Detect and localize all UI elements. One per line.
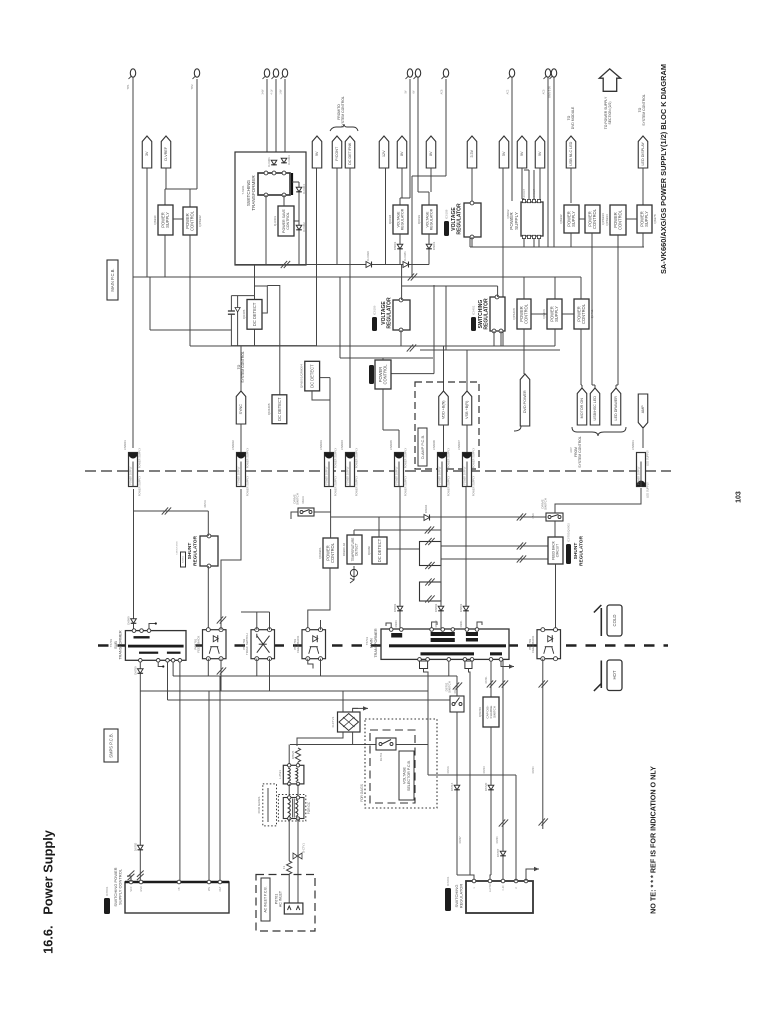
svg-text:Q6978: Q6978 <box>653 214 657 224</box>
label FOR GA/GS rotated <box>360 784 364 802</box>
cable marks y517 <box>517 513 526 520</box>
wire D6803 riser <box>399 487 401 628</box>
svg-text:R6525: R6525 <box>291 750 295 759</box>
wire Q6990 to busB <box>164 235 166 277</box>
arrow cold <box>594 605 601 636</box>
diode D6803 <box>393 603 403 612</box>
svg-text:F-IN: F-IN <box>502 885 505 890</box>
svg-text:3.3V: 3.3V <box>470 149 474 157</box>
cable marks rect1 bottom <box>425 562 434 569</box>
label VOLTAGE REGULATOR row2 bold <box>381 297 393 329</box>
svg-text:IC6501: IC6501 <box>105 886 109 896</box>
wire coil a to tr <box>288 784 290 798</box>
svg-text:REGULATOR: REGULATOR <box>456 203 462 235</box>
svg-text:FOR GA/GS: FOR GA/GS <box>360 784 364 802</box>
terminal at x=548 <box>544 69 551 79</box>
svg-text:QP6408: QP6408 <box>512 308 516 320</box>
cable marks mt491 <box>487 680 496 687</box>
wire vreg2 down <box>428 234 430 265</box>
terminal at x=446 <box>442 69 449 79</box>
svg-text:FEED BACK: FEED BACK <box>531 636 535 653</box>
svg-text:SWITCH: SWITCH <box>448 681 452 693</box>
svg-text:FOR GC: FOR GC <box>307 801 311 814</box>
wire jog y189 <box>165 188 197 190</box>
label SWITCHING REGULATOR bottom <box>454 884 463 909</box>
svg-text:FEED BACK: FEED BACK <box>296 636 300 653</box>
cable marks rect2 bottom <box>425 595 434 602</box>
cable marks bus511 <box>162 507 171 514</box>
svg-text:SMPS P.C.B.: SMPS P.C.B. <box>108 733 113 758</box>
svg-text:REGULATOR: REGULATOR <box>459 884 464 909</box>
wire terminal3 down <box>266 79 268 174</box>
bus G2 y=700 <box>168 699 456 701</box>
svg-text:4-1V: 4-1V <box>270 89 273 94</box>
terminal at x=418 <box>414 69 421 79</box>
svg-text:SA-VK660/AXG/GS POWER SUPPLY(1: SA-VK660/AXG/GS POWER SUPPLY(1/2) BLOC K… <box>659 64 668 274</box>
photocoupler PC6701 FEED BACK <box>293 628 326 661</box>
svg-text:D-6490: D-6490 <box>366 251 370 261</box>
wire sub pin to busF <box>172 662 174 676</box>
brace top system control <box>330 124 358 131</box>
svg-text:TP1: TP1 <box>126 84 130 90</box>
svg-text:DC DETECT: DC DETECT <box>377 538 382 562</box>
wire powersave right link <box>294 220 299 222</box>
wire 3.3V-2 down <box>471 168 473 202</box>
diode D6799 <box>133 666 143 675</box>
svg-text:QP6994: QP6994 <box>605 214 609 226</box>
svg-text:103: 103 <box>735 491 742 503</box>
svg-text:FOR GA/GS: FOR GA/GS <box>257 797 261 814</box>
winding primary 3 main transformer <box>466 632 478 642</box>
label AC INLET P.C.B. <box>261 878 270 921</box>
wire link row2 cd <box>562 313 574 315</box>
svg-text:POWER SUPPLY: POWER SUPPLY <box>446 447 450 468</box>
wire 9V-2 down <box>521 168 523 199</box>
cable marks rect1 top <box>425 538 434 545</box>
label TO DVD MODULE <box>567 106 575 129</box>
wire connector AMP to switch2 <box>555 488 641 513</box>
svg-text:AC INLET: AC INLET <box>279 890 283 907</box>
net label 5V at x=504 <box>499 136 509 168</box>
terminal at x=276 <box>272 69 279 79</box>
svg-text:1-8V: 1-8V <box>279 89 282 94</box>
wire box top stub <box>254 296 256 300</box>
svg-text:POWER SUPPLY: POWER SUPPLY <box>327 466 329 485</box>
wire right branch horiz <box>292 181 299 183</box>
ref tag IC6801 shunt outlined <box>177 540 186 567</box>
svg-text:TRANSFORMER: TRANSFORMER <box>118 630 122 660</box>
block DC DETECT QR6001 <box>300 361 320 391</box>
label VOLTAGE REGULATOR row1 bold <box>451 203 463 235</box>
cable marks smps left <box>128 871 135 881</box>
svg-text:AC8: AC8 <box>440 89 443 94</box>
pins main transformer bottom <box>418 658 503 662</box>
thermistor TH6901 <box>350 566 358 583</box>
block POWER SUPPLY right2 <box>637 205 657 233</box>
svg-text:5 IN/OUT: 5 IN/OUT <box>533 188 536 199</box>
net label VDD +B(N) <box>439 391 449 425</box>
svg-text:D6802: D6802 <box>435 620 438 628</box>
wire PC6702 up L <box>256 612 258 630</box>
wire filter feed a <box>288 745 290 766</box>
connector CN6002 <box>231 440 246 487</box>
sheet title GA-VX600/AXG/GS POWER SUPPLY(1/2) BLOCK DIAGRAM <box>659 64 668 274</box>
pin number texts switching regulator <box>473 884 518 892</box>
svg-text:POWER SUPPLY: POWER SUPPLY <box>465 466 467 485</box>
svg-text:Q6093: Q6093 <box>388 215 392 225</box>
wire sub pin down D6799 <box>139 662 141 882</box>
wire bridge top feed <box>342 691 344 712</box>
svg-text:D6707: D6707 <box>459 836 462 844</box>
svg-text:8V: 8V <box>400 151 404 156</box>
wire dcdet mid top <box>378 517 380 537</box>
svg-text:POWER SUPPLY: POWER SUPPLY <box>245 475 249 496</box>
svg-text:8V: 8V <box>429 151 433 156</box>
svg-text:CN6601: CN6601 <box>631 440 635 450</box>
wire T6301 left pin down <box>265 195 267 265</box>
svg-text:D6724: D6724 <box>532 766 535 774</box>
wire t8 down <box>411 176 413 265</box>
wire 8V-2 through <box>430 168 432 192</box>
bus A y=264.5 <box>235 264 412 266</box>
wire vregIC down to bus247 <box>471 237 473 247</box>
bus F y=676 <box>173 675 457 677</box>
hook wire winding3 <box>477 622 482 628</box>
wire 9V-3 down <box>539 168 541 202</box>
wire tr down a <box>288 819 290 862</box>
enclosure AC INLET P.C.B. dashed <box>256 875 315 932</box>
svg-text:CN6005: CN6005 <box>389 440 393 450</box>
pins T6301 <box>264 171 286 197</box>
wire 3V down <box>146 168 148 277</box>
wire D6802 riser <box>440 487 442 628</box>
wire PC6791 down L <box>207 659 209 676</box>
diode D6091 <box>426 241 436 250</box>
diode D-6303 <box>281 155 291 165</box>
svg-text:SUPPLY: SUPPLY <box>554 306 559 322</box>
svg-text:REGULATOR: REGULATOR <box>386 297 392 329</box>
svg-text:3V: 3V <box>145 151 149 156</box>
svg-text:POWER SUPPLY: POWER SUPPLY <box>440 466 442 485</box>
wire jog motor-on <box>581 384 582 386</box>
svg-text:MOTOR ON: MOTOR ON <box>580 398 584 419</box>
wire D6801 riser <box>465 487 467 628</box>
block POWER CONTROL lower <box>318 538 338 568</box>
ref tag IC6601 <box>445 876 451 911</box>
svg-text:CONTROL: CONTROL <box>383 364 388 385</box>
wire jog t8 <box>412 175 446 177</box>
winding secondary main transformer <box>421 652 475 655</box>
wire terminal6 down <box>409 79 411 198</box>
wire T6301 to power save <box>283 195 285 206</box>
block POWER CONTROL row2a <box>512 299 531 329</box>
wire 9V down <box>316 168 318 346</box>
connector CN6001 <box>123 440 138 487</box>
svg-text:Q6411: Q6411 <box>590 309 594 318</box>
wire y530 line <box>354 529 441 531</box>
svg-text:Q6002: Q6002 <box>506 209 510 218</box>
block rect filter 2 <box>420 582 442 601</box>
wire Q6002 pin b down <box>533 239 535 247</box>
wire terminal2 down <box>196 79 198 189</box>
svg-text:SUPPLY: SUPPLY <box>165 212 170 228</box>
wire riser to CN6003 <box>329 378 331 452</box>
svg-text:SYSTEM CONTROL: SYSTEM CONTROL <box>341 96 345 128</box>
svg-text:QR6001/QR6004: QR6001/QR6004 <box>300 364 304 388</box>
svg-text:CONTROL: CONTROL <box>330 542 335 563</box>
wire terminal1 down <box>132 77 134 448</box>
net label AMP <box>638 394 648 428</box>
wire bridge out arrow <box>353 708 358 712</box>
cable marks y559 <box>517 555 526 562</box>
svg-text:POWER SUPPLY: POWER SUPPLY <box>333 475 337 496</box>
svg-text:SHUNT: SHUNT <box>187 543 193 560</box>
winding tap step right <box>465 661 472 669</box>
svg-text:POWER SUPPLY: POWER SUPPLY <box>137 475 141 496</box>
svg-text:CONTROL: CONTROL <box>618 209 623 230</box>
net label 3V at x=147 <box>142 136 152 168</box>
svg-text:POWER SUPPLY: POWER SUPPLY <box>403 447 407 468</box>
wire bottom bracket dc detect <box>231 345 316 347</box>
svg-text:Q-6301: Q-6301 <box>273 216 277 227</box>
label TO SYSTEM CONTROL mid <box>237 351 245 383</box>
arrow bridge out <box>353 706 368 710</box>
svg-text:POWER SUPPLY: POWER SUPPLY <box>245 447 249 468</box>
cable marks on bus A <box>281 261 290 268</box>
block POWER SUPPLY row2b <box>542 299 562 329</box>
svg-text:3-6V: 3-6V <box>261 89 264 94</box>
block POWER SUPPLY right1 <box>559 205 579 233</box>
bus H y=744.5 relay line <box>290 744 428 746</box>
net label 9V at x=522 <box>517 136 527 168</box>
wire Q6002 jog a <box>524 169 529 171</box>
terminal at x=512 <box>508 69 515 79</box>
block switching regulator body row2 <box>490 295 505 333</box>
wire tr down b <box>297 819 299 904</box>
net label 12V at x=384 <box>379 136 389 168</box>
relay RL761 <box>376 738 396 761</box>
wire capdis down <box>490 727 492 875</box>
svg-text:POWER SUPPLY: POWER SUPPLY <box>354 475 358 496</box>
svg-text:D-6302: D-6302 <box>302 222 306 232</box>
svg-text:POWER SUPPLY: POWER SUPPLY <box>639 466 641 485</box>
wire conn399 jog <box>383 429 399 431</box>
winding primary 1 main transformer <box>391 633 402 638</box>
wire DC DET/FNK down to connector <box>349 168 351 448</box>
svg-text:D6720: D6720 <box>484 782 488 791</box>
svg-text:D6T01: D6T01 <box>485 676 488 684</box>
block outline SWITCHING TRANSFORMER group <box>235 152 306 265</box>
wire mt tapR down <box>469 669 471 876</box>
wire VDD to connector <box>443 425 445 452</box>
wire shunt bottom <box>207 566 209 630</box>
bus F247 y=247 <box>470 246 644 248</box>
pin texts q6002 <box>523 188 536 199</box>
hook wire sub top <box>149 622 157 628</box>
core bar main transformer <box>389 644 506 647</box>
svg-text:D6801: D6801 <box>460 620 463 628</box>
wire P/CONT down <box>336 168 338 265</box>
wire 12V down to busA <box>385 168 387 265</box>
svg-text:D6802: D6802 <box>434 603 438 612</box>
svg-text:D-AMP P.C.B.: D-AMP P.C.B. <box>420 435 425 459</box>
wire y517 feed line <box>331 516 546 518</box>
wire PC6702 up R <box>269 612 271 630</box>
svg-text:D6803: D6803 <box>395 620 398 628</box>
svg-text:5V: 5V <box>502 151 506 156</box>
connector CN6003 <box>319 440 334 487</box>
wire sub pin right down <box>179 662 181 882</box>
block POWER CONTROL right1 <box>585 205 605 233</box>
svg-text:D6093: D6093 <box>393 241 397 250</box>
wire terminal8 down <box>445 79 447 176</box>
svg-text:CONTROL: CONTROL <box>581 303 586 324</box>
block POWER CONTROL row2c <box>574 299 594 329</box>
wire row2b down <box>554 329 556 346</box>
wire pc-mid top <box>382 358 384 360</box>
pin texts main transformer top <box>395 620 463 628</box>
svg-text:GND: GND <box>140 886 143 892</box>
cable marks on bus D <box>407 344 416 351</box>
svg-text:SUPPLY: SUPPLY <box>571 211 576 227</box>
svg-text:D6999: D6999 <box>126 616 130 625</box>
pins sub transformer bottom <box>139 659 182 663</box>
bus D2 y=350 <box>420 349 560 351</box>
svg-text:CN6004: CN6004 <box>340 440 344 450</box>
wire PC6702 up jog <box>241 611 270 613</box>
page number 103 <box>735 491 742 503</box>
wire Q6002 pin a up <box>528 170 530 199</box>
wire motor stub <box>581 385 583 390</box>
wire jog to swreg pin1 <box>457 875 474 881</box>
bus B y=277 <box>133 276 581 278</box>
svg-text:DC DETECT: DC DETECT <box>252 302 257 326</box>
cable marks rect2 top <box>425 578 434 585</box>
wire feedback loop dc detect <box>255 286 268 313</box>
winding aux main transformer <box>490 652 502 655</box>
label VOLTAGE SELECTOR P.C.B. <box>399 751 414 800</box>
label SWITCHING REGULATOR row2 bold <box>478 298 490 330</box>
wire box1 top feed <box>164 189 166 205</box>
net label LED DISPLAY at x=643 <box>638 136 648 168</box>
enclosure FOR GA/GS alt transformer dotted <box>263 784 277 826</box>
net label 8V at x=431 <box>426 136 436 168</box>
wire row2a top <box>523 277 525 299</box>
hook wire winding1 <box>386 623 391 628</box>
fuse F1 <box>282 861 292 874</box>
diode D6801 <box>459 603 469 612</box>
label T-6301 SWITCHING TRANSFORMER <box>241 175 256 211</box>
terminal at x=554 <box>550 69 557 79</box>
label T6741 MAIN TRANSFORMER <box>365 628 378 658</box>
wire bus y775 <box>428 774 516 776</box>
svg-text:VSB +B(R): VSB +B(R) <box>465 401 469 419</box>
svg-text:REGULATOR: REGULATOR <box>430 208 434 230</box>
label TO SYSTEM CONTROL top right <box>638 94 646 126</box>
terminal at x=133 <box>126 69 136 90</box>
svg-text:D6799: D6799 <box>133 666 137 675</box>
diode D6093/D6092 <box>393 241 403 250</box>
svg-text:D-6304: D-6304 <box>302 184 306 194</box>
wire 541 jog right bottom <box>540 828 542 830</box>
svg-text:DC DETECT: DC DETECT <box>310 364 315 388</box>
winding secondary sub transformer A <box>139 652 158 654</box>
svg-text:CN6002: CN6002 <box>231 440 235 450</box>
wire USB NLC LED down <box>570 168 572 203</box>
svg-text:T6741: T6741 <box>365 637 369 646</box>
wire PC6701 down R <box>320 659 322 676</box>
wire link row2 bc <box>531 313 547 315</box>
net label P/CONT at x=337 <box>332 136 342 168</box>
diode D6999 <box>126 616 136 625</box>
ref tag QR6901 <box>369 365 374 384</box>
net label MOTOR ON <box>577 388 587 425</box>
svg-text:3 IN/OUT: 3 IN/OUT <box>523 188 526 199</box>
svg-text:REGULATOR: REGULATOR <box>401 208 405 230</box>
connector CN6007 <box>457 440 472 487</box>
wire row2c top <box>580 277 582 299</box>
wire swreg arrow out <box>526 869 531 881</box>
diode D-6481 on bus A <box>403 251 409 268</box>
page title 16.6 Power Supply <box>41 829 56 954</box>
svg-text:SUPPLY CONTROL: SUPPLY CONTROL <box>118 868 123 905</box>
note REF IS FOR INDICATION ONLY <box>648 766 657 914</box>
resistor R6525 <box>291 748 301 762</box>
wire jog USB pent <box>592 384 595 386</box>
wire sw reg bottom a <box>493 331 495 346</box>
svg-text:QR6901: QR6901 <box>318 547 322 559</box>
winding primary sub transformer <box>134 636 150 638</box>
svg-text:Q6091: Q6091 <box>417 215 421 225</box>
svg-text:D6707: D6707 <box>496 848 500 857</box>
wire pc lower top riser <box>330 489 332 538</box>
svg-text:CN6001: CN6001 <box>123 440 127 450</box>
wire PC6791 down R <box>220 659 222 691</box>
svg-text:SYNC: SYNC <box>239 404 243 415</box>
wire feedback down to PC6703 <box>555 564 557 630</box>
block VOLTAGE REGULATOR Q6091 <box>417 205 437 234</box>
svg-text:CN6007: CN6007 <box>457 440 461 450</box>
cable marks y530 <box>425 526 434 533</box>
wire y549 link <box>387 548 420 550</box>
net label 9V at x=317 <box>312 136 322 168</box>
wire right branch vertical <box>298 182 300 265</box>
wire PC6702 down L <box>256 659 258 676</box>
svg-text:FEED BACK: FEED BACK <box>197 636 201 653</box>
cable marks on bus B <box>408 273 417 280</box>
svg-text:12V: 12V <box>382 150 386 157</box>
svg-text:L-6521: L-6521 <box>278 770 282 779</box>
hook wire sub bottom <box>158 662 164 668</box>
label FROM SYSTEM CONTROL mid <box>574 436 582 468</box>
svg-text:DVD POWER: DVD POWER <box>523 390 527 413</box>
wire terminal5 down <box>284 79 286 174</box>
svg-text:REGULATOR: REGULATOR <box>483 298 489 330</box>
winding tap step left <box>420 661 428 669</box>
net label 3.3V at x=472 <box>467 136 477 168</box>
wire VSB tip feed <box>466 350 468 391</box>
svg-text:Q6990: Q6990 <box>153 215 157 225</box>
svg-text:MAIN P.C.B.: MAIN P.C.B. <box>110 268 115 291</box>
svg-text:9V: 9V <box>315 151 319 156</box>
bus C2 y=286 <box>402 285 498 287</box>
photocoupler PC6791 FEED BACK <box>193 628 226 661</box>
block TEMPERATURE DETECT <box>342 535 362 564</box>
label FOR GA/GS small <box>257 797 261 814</box>
brace FROM SYSTEM CONTROL mid <box>514 426 626 436</box>
cable marks sw top <box>453 682 462 689</box>
svg-text:RL761: RL761 <box>379 752 383 761</box>
